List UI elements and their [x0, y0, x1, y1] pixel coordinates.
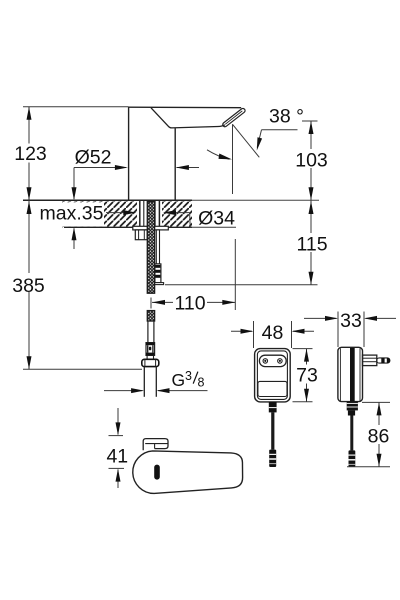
svg-text:385: 385: [12, 275, 45, 297]
svg-text:8: 8: [198, 376, 205, 390]
svg-text:41: 41: [106, 445, 128, 467]
svg-text:48: 48: [262, 322, 284, 344]
svg-text:73: 73: [296, 365, 318, 387]
svg-text:3: 3: [185, 369, 192, 383]
svg-text:G: G: [172, 370, 186, 390]
svg-text:110: 110: [174, 292, 205, 314]
svg-text:33: 33: [340, 310, 362, 332]
svg-text:103: 103: [295, 150, 328, 172]
svg-text:max.35: max.35: [40, 203, 104, 225]
svg-text:38 °: 38 °: [269, 106, 304, 128]
svg-text:123: 123: [14, 143, 47, 165]
svg-text:86: 86: [368, 426, 390, 448]
svg-text:Ø52: Ø52: [75, 147, 112, 169]
svg-text:Ø34: Ø34: [198, 208, 235, 230]
svg-text:115: 115: [296, 234, 327, 256]
